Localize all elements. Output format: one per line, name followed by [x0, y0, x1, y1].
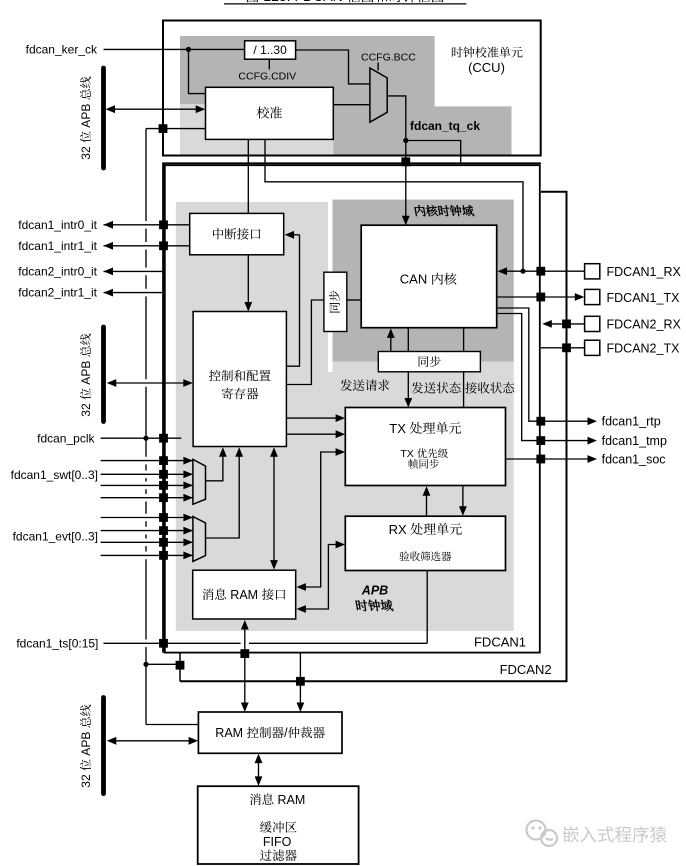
wire fdcan1_ts vertical to RX unit [426, 571, 428, 644]
junction square evt1 [159, 526, 168, 535]
FDCAN1 box [165, 165, 540, 652]
interrupt interface label [213, 228, 223, 239]
wire sync vertical to CAN core [347, 299, 361, 301]
sync horizontal label [419, 356, 429, 367]
acceptance filter label 验收筛选器 [399, 551, 409, 561]
APB bus bar 2 [101, 327, 106, 422]
wire fdcan_pclk to calibration [146, 128, 206, 130]
wire ker_ck branch to calibration [189, 49, 206, 93]
junction square evt2 [159, 538, 168, 547]
wire APB bus 3 to RAM controller (bidir) [108, 740, 194, 742]
wire fdcan1_evt2 [101, 541, 193, 543]
wire fdcan1_swt2 [101, 484, 193, 486]
svg-text:RAM: RAM [278, 793, 306, 807]
svg-text:RX: RX [389, 522, 407, 537]
svg-text:32: 32 [79, 403, 93, 417]
wire CAN core to sync horizontal [407, 328, 409, 352]
junction square at FDCAN1 bottom border [240, 649, 249, 658]
CCU APB light gray band [180, 104, 334, 155]
svg-text:fdcan_tq_ck: fdcan_tq_ck [410, 119, 480, 133]
wire fdcan_pclk to RAM controller [146, 724, 198, 726]
svg-text:FIFO: FIFO [263, 835, 292, 849]
junction square swt1 [159, 470, 168, 479]
junction square on RAM link wire [176, 661, 185, 670]
wire fdcan_pclk horizontal [101, 437, 182, 439]
svg-text:TX: TX [400, 448, 413, 460]
wire RAM controller to message RAM (bidir) [258, 758, 260, 782]
wire APB bus 1 to calibration (bidir) [107, 108, 204, 110]
svg-text:fdcan1_evt[0..3]: fdcan1_evt[0..3] [13, 529, 98, 543]
wire fdcan2_intr0_it [104, 270, 165, 272]
FDCAN1 APB gray gap filler [326, 372, 334, 631]
wire fdcan_tq_ck down to CAN core [405, 141, 407, 225]
wire fdcan1_intr0_it [104, 224, 190, 226]
message RAM label [250, 794, 261, 805]
RAM controller box RAM控制器/仲裁器 [198, 712, 342, 753]
svg-text:APB: APB [361, 583, 388, 597]
svg-text:FDCAN2: FDCAN2 [500, 662, 552, 677]
node fdcan_tq_ck [403, 138, 408, 143]
wire divider to mux [296, 50, 370, 84]
mux swt [193, 459, 206, 504]
svg-text:RAM: RAM [230, 588, 258, 602]
junction square FDCAN2_TX at border [562, 343, 571, 352]
wire fdcan1_evt0 [101, 517, 193, 519]
junction square fdcan1_rtp [536, 417, 545, 426]
svg-text:FDCAN2_TX: FDCAN2_TX [607, 342, 681, 356]
wire FDCAN2_RX [547, 323, 585, 325]
junction square at FDCAN2 bottom border [296, 677, 305, 686]
mux evt [193, 517, 206, 562]
node fdcan_ker_ck branch [186, 47, 191, 52]
interrupt interface box 中断接口 [190, 213, 284, 254]
wire FDCAN2_TX [541, 347, 585, 349]
wire FDCAN1_TX [497, 296, 580, 298]
junction square fdcan_pclk at CCU border [159, 124, 168, 133]
svg-text:fdcan1_ts[0:15]: fdcan1_ts[0:15] [16, 636, 98, 650]
APB bus bar 3 [101, 698, 106, 794]
junction square evt0 [159, 513, 168, 522]
port FDCAN2_TX [585, 340, 600, 355]
sync horizontal box 同步 [378, 352, 480, 372]
wire config registers to TX handler 2 [286, 433, 340, 435]
wire mux output fdcan_tq_ck [387, 96, 406, 141]
CCU core-clock gray region [180, 36, 512, 155]
node rx tap junction [520, 269, 525, 274]
sync vertical label [329, 290, 340, 312]
FDCAN1 core clock domain gray [333, 200, 514, 362]
FDCAN1-FDCAN2 RAM link wire [179, 654, 181, 682]
wire FDCAN1_RX [502, 270, 585, 272]
svg-text:/: / [284, 726, 288, 740]
svg-text:fdcan1_soc: fdcan1_soc [602, 452, 666, 466]
svg-text:fdcan2_intr1_it: fdcan2_intr1_it [18, 286, 97, 300]
svg-text:TX: TX [389, 421, 406, 436]
wire config registers to TX handler 1 [286, 417, 340, 419]
wire fdcan1_evt1 [101, 530, 193, 532]
wire pclk junction to RAM link [146, 663, 180, 665]
junction square intr0 [159, 220, 168, 229]
svg-text:fdcan_pclk: fdcan_pclk [37, 431, 95, 445]
APB clock domain label line2 [355, 600, 368, 611]
svg-text:/ 1..30: / 1..30 [253, 43, 287, 57]
junction square fdcan_pclk at FDCAN border [159, 434, 168, 443]
wire fdcan1_rtp [497, 308, 593, 421]
config registers label line1 [209, 370, 221, 381]
wire fdcan1_intr1_it [104, 245, 190, 247]
svg-text:APB: APB [79, 361, 93, 385]
wire config registers to interrupt interface [286, 235, 299, 366]
buffer label 缓冲区 [260, 821, 272, 832]
RX handler box RX处理单元 [345, 516, 505, 570]
message RAM interface box 消息RAM接口 [193, 570, 296, 619]
wire config registers to sync vertical [286, 300, 324, 385]
wire interrupt interface to config registers [247, 255, 249, 307]
wire calibration rx tap [265, 139, 523, 271]
CCFG.CDIV stub wire [268, 59, 270, 69]
frame sync label 帧同步 [409, 459, 418, 469]
CCU box (clock calibration unit) [163, 21, 541, 156]
wire FDCAN1 to RAM controller [299, 654, 301, 708]
mux CCFG.BCC [370, 68, 387, 122]
svg-text:fdcan1_rtp: fdcan1_rtp [602, 415, 661, 429]
port FDCAN2_RX [585, 316, 600, 331]
title underline [224, 3, 466, 5]
APB bus bar 1 [101, 68, 106, 168]
svg-text:FDCAN1_RX: FDCAN1_RX [607, 265, 682, 279]
calibration box 校准 [206, 87, 334, 139]
junction square evt3 [159, 551, 168, 560]
wire TX to RX handler [462, 486, 464, 512]
FDCAN1 APB clock domain gray (left) [176, 202, 328, 631]
wire fdcan1_swt1 [101, 473, 193, 475]
FDCAN2 box outline [163, 163, 541, 653]
CCU label line1 [452, 47, 463, 58]
svg-text:RAM: RAM [215, 726, 243, 740]
junction square fdcan1_tmp [536, 436, 545, 445]
wire fdcan1_evt3 [101, 554, 193, 556]
node fdcan_pclk branch [143, 436, 148, 441]
wire config registers to message RAM interface (bidir) [273, 451, 275, 565]
svg-text:fdcan1_swt[0..3]: fdcan1_swt[0..3] [11, 468, 98, 482]
wire fdcan_tq_ck branch to FDCAN2 [406, 141, 461, 163]
calibration box label [257, 107, 269, 119]
config registers box 控制和配置寄存器 [193, 312, 286, 447]
wire fdcan1_swt0 [101, 460, 193, 462]
svg-text:APB: APB [79, 732, 93, 756]
wire RX to TX handler [426, 490, 428, 516]
port FDCAN1_RX [585, 264, 600, 279]
svg-text:FDCAN2_RX: FDCAN2_RX [607, 318, 682, 332]
divider /1..30 box [245, 41, 296, 59]
svg-text:fdcan_ker_ck: fdcan_ker_ck [26, 42, 98, 56]
svg-text:CCFG.BCC: CCFG.BCC [361, 52, 416, 64]
APB bus 2 label 32位APB总线 [79, 334, 93, 417]
svg-text:32: 32 [79, 774, 93, 788]
junction square swt2 [159, 481, 168, 490]
svg-text:fdcan1_intr0_it: fdcan1_intr0_it [18, 218, 97, 232]
port FDCAN1_TX [585, 289, 600, 304]
wire fdcan_pclk vertical trunk [145, 129, 147, 221]
wire fdcan2_intr1_it [104, 292, 165, 294]
wire sync to TX handler (tx request) [407, 372, 409, 403]
FDCAN1 APB clock domain gray (right) [333, 362, 514, 632]
CAN core box [361, 225, 497, 328]
wire fdcan1_ts [104, 642, 241, 644]
svg-text:(CCU): (CCU) [468, 60, 505, 75]
TX handler box TX处理单元 [345, 408, 505, 486]
watermark logo [527, 821, 558, 847]
RX status label 接收状态 [465, 382, 477, 394]
config registers label line2 [222, 388, 233, 400]
junction square fdcan_tq_ck at FDCAN boundary [401, 157, 410, 166]
svg-text:fdcan2_intr0_it: fdcan2_intr0_it [18, 264, 97, 278]
junction square FDCAN1_TX at border [536, 293, 545, 302]
message RAM interface label [202, 589, 213, 600]
wire fdcan1_tmp [497, 314, 593, 441]
junction square FDCAN2_RX at border [562, 320, 571, 329]
svg-text:FDCAN1_TX: FDCAN1_TX [607, 291, 681, 305]
junction square fdcan1_soc [536, 455, 545, 464]
APB bus 1 label 32位APB总线 [79, 77, 93, 160]
APB bus 3 label 32位APB总线 [79, 705, 93, 788]
wire mux swt output [206, 452, 223, 481]
filter label 过滤器 [260, 850, 272, 861]
svg-text:FDCAN1: FDCAN1 [474, 635, 526, 650]
svg-text:32: 32 [79, 146, 93, 160]
wire TX handler to message RAM interface (bidir) [301, 452, 341, 587]
wire fdcan1_soc [506, 458, 593, 460]
junction square swt0 [159, 456, 168, 465]
svg-text:APB: APB [79, 104, 93, 128]
wire sync horizontal to CAN core (up arrow) [390, 332, 392, 351]
wire calibration to mux [333, 104, 370, 106]
wire APB bus 2 to config registers (bidir) [108, 382, 191, 384]
wire calibration to interrupt interface [247, 139, 249, 213]
sync vertical box 同步 [324, 272, 347, 331]
svg-text:fdcan1_intr1_it: fdcan1_intr1_it [18, 239, 97, 253]
node pclk-ram junction [143, 662, 148, 667]
junction square FDCAN1_RX at border [536, 267, 545, 276]
junction square ts [159, 639, 168, 648]
svg-text:CAN: CAN [400, 272, 427, 287]
svg-text:fdcan1_tmp: fdcan1_tmp [602, 434, 667, 448]
watermark text 嵌入式程序猿 [563, 826, 579, 842]
wire fdcan1_swt3 [101, 497, 193, 499]
junction square swt3 [159, 493, 168, 502]
CCFG.BCC stub wire [377, 63, 379, 71]
wire RX handler to message RAM interface (bidir) [301, 545, 341, 610]
svg-text:CCFG.CDIV: CCFG.CDIV [238, 71, 296, 83]
wire tx status divider [463, 328, 465, 352]
wire fdcan_ker_ck [104, 48, 245, 50]
clipped title text fragments [247, 0, 444, 4]
message RAM box 消息RAM [198, 786, 359, 864]
wire message RAM interface to RAM controller [244, 625, 246, 708]
TX request label 发送请求 [340, 379, 352, 391]
junction square intr1 [159, 241, 168, 250]
core clock domain label 内核时钟域 [414, 205, 426, 216]
wire mux evt output [206, 452, 240, 539]
TX status label 发送状态 [412, 382, 424, 394]
